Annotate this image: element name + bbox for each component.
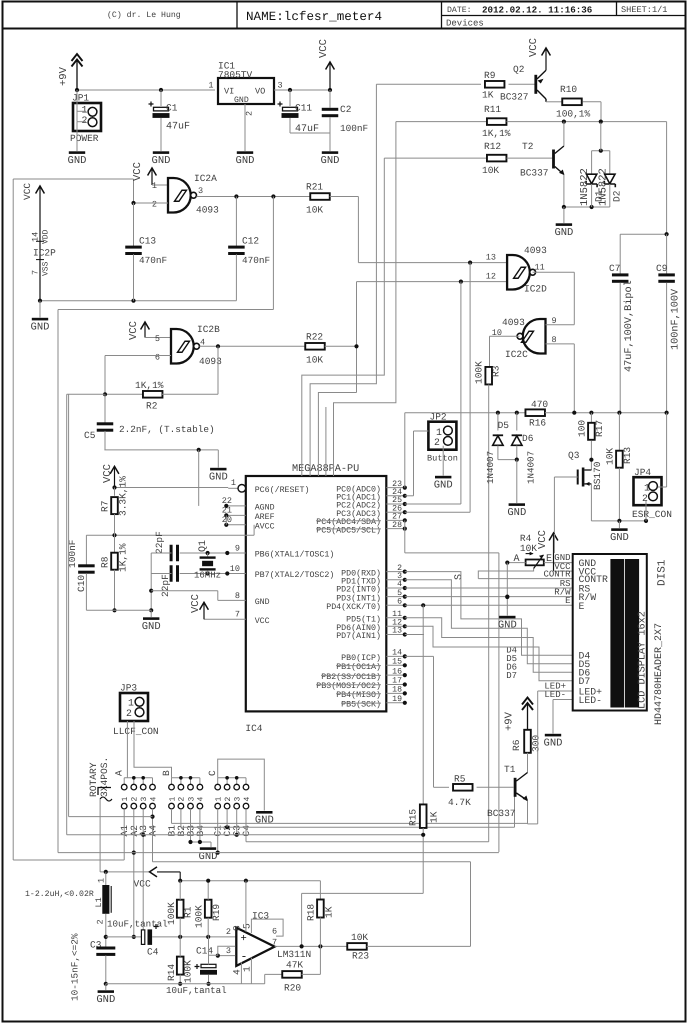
svg-text:16MHz: 16MHz	[194, 571, 221, 581]
wire A2 down to oscillator	[133, 818, 135, 937]
resistor R13 10K	[618, 413, 620, 450]
svg-text:100K: 100K	[166, 902, 177, 925]
svg-text:R14: R14	[166, 964, 177, 981]
wire Q3 gate to VCC leg	[553, 534, 555, 553]
wire pin13 stub	[405, 634, 424, 636]
wire B1 to T1 emitter row	[171, 818, 173, 823]
ground JP2	[435, 476, 451, 479]
svg-text:PC6(/RESET): PC6(/RESET)	[255, 485, 310, 495]
svg-text:1: 1	[242, 966, 253, 972]
VCC arrow LCD	[549, 533, 558, 541]
pin 6 PD4(XCK/T0)	[386, 604, 405, 606]
pin 1 PC6 reset	[228, 487, 238, 489]
svg-text:3: 3	[278, 81, 283, 91]
svg-text:10-15nF,<=2%: 10-15nF,<=2%	[70, 933, 81, 1001]
svg-text:HD44780HEADER_2X7: HD44780HEADER_2X7	[654, 623, 665, 725]
svg-text:2: 2	[245, 111, 255, 116]
ground JP1	[69, 151, 85, 154]
svg-text:R18: R18	[306, 904, 317, 921]
svg-text:DATE:: DATE:	[447, 6, 472, 15]
capacitor C12 470nF	[235, 197, 237, 247]
ground rotary C	[256, 811, 272, 814]
svg-text:5: 5	[155, 334, 160, 344]
resistor R17 100	[590, 413, 592, 422]
svg-text:VCC: VCC	[190, 594, 202, 613]
ground T2	[563, 207, 565, 223]
svg-text:GND: GND	[142, 621, 161, 633]
pin 24 PC1(ADC1)	[386, 495, 405, 497]
title block divider lines	[3, 28, 686, 30]
svg-text:IC4: IC4	[245, 723, 262, 734]
capacitor C9 100nF	[620, 233, 666, 235]
svg-text:100K: 100K	[183, 960, 194, 983]
svg-text:DIS1: DIS1	[657, 559, 669, 586]
svg-text:ESR_CON: ESR_CON	[632, 509, 672, 520]
svg-text:E: E	[579, 601, 585, 612]
svg-text:470: 470	[531, 399, 548, 410]
ground rotary B	[200, 847, 216, 850]
rotary wiper mark	[98, 788, 111, 796]
wire wiper to VCC line	[99, 799, 101, 872]
connector JP2 button	[428, 422, 456, 450]
svg-text:1: 1	[168, 797, 177, 802]
wire A4 to left bus	[69, 816, 153, 818]
wire IC2P VSS to ground rail	[40, 300, 236, 302]
wire xtal caps ground leg	[150, 553, 152, 610]
svg-text:R8: R8	[100, 556, 111, 568]
ground crystal	[143, 617, 159, 620]
svg-text:R20: R20	[284, 983, 301, 994]
svg-text:R22: R22	[306, 332, 323, 343]
svg-text:E: E	[565, 596, 570, 606]
diode D2 1N5822	[592, 150, 610, 152]
+9V supply arrow	[72, 54, 83, 67]
svg-text:12: 12	[486, 272, 496, 282]
svg-text:T2: T2	[522, 141, 534, 152]
transistor Q2 BC327	[534, 75, 537, 94]
ground C3	[98, 990, 114, 993]
wire JP1 pins to ground	[76, 90, 78, 122]
capacitor C7 47uF bipolar	[619, 234, 621, 273]
wire A3 down to C4	[142, 818, 144, 931]
pin 20 AVCC	[226, 524, 246, 526]
svg-text:VCC: VCC	[134, 879, 152, 890]
svg-text:C1: C1	[166, 103, 178, 114]
svg-text:C: C	[207, 770, 218, 776]
wire VCC rail oscillator	[180, 880, 320, 882]
svg-text:17: 17	[392, 677, 402, 686]
wire reset pullup	[115, 487, 229, 489]
rotary group B	[172, 777, 200, 779]
svg-text:4: 4	[149, 797, 158, 802]
resistor R20 47K	[265, 973, 283, 975]
svg-text:R13: R13	[622, 447, 633, 464]
gate IC2B 4093	[141, 322, 150, 330]
wire pot wiper to CONTR	[478, 569, 533, 579]
resistor R1 100K	[177, 900, 184, 918]
svg-text:JP2: JP2	[430, 411, 447, 422]
svg-text:1K: 1K	[429, 811, 440, 823]
wire IC3 pin8 to VCC rail	[245, 881, 247, 932]
svg-text:GND: GND	[236, 155, 255, 167]
svg-text:3: 3	[226, 946, 231, 956]
wire IC2D pin12 run	[357, 281, 508, 283]
svg-text:R1: R1	[183, 906, 194, 918]
svg-text:+9V: +9V	[58, 66, 70, 86]
svg-text:470nF: 470nF	[139, 255, 167, 266]
resistor R3 100K	[485, 367, 492, 385]
svg-text:LED-: LED-	[579, 695, 603, 706]
svg-text:C10: C10	[76, 575, 87, 592]
svg-text:R6: R6	[511, 739, 522, 751]
svg-text:GND: GND	[321, 155, 340, 167]
capacitor C10 100nF	[85, 535, 87, 565]
wire IC2B pin6	[105, 355, 171, 357]
svg-text:GND: GND	[68, 155, 87, 167]
wire R22 to bus	[325, 345, 357, 347]
svg-text:IC2A: IC2A	[194, 173, 217, 184]
wire R15 bottom to comparator output	[302, 892, 424, 894]
svg-text:GND: GND	[434, 480, 453, 492]
svg-text:GND: GND	[31, 322, 50, 334]
svg-text:2: 2	[178, 797, 187, 802]
wire LCD R/W from pin5	[405, 596, 573, 598]
wire JP3 pin1 to rotary A common	[126, 721, 128, 778]
svg-text:10K: 10K	[351, 932, 368, 943]
resistor R14 100K	[177, 957, 184, 975]
wire LCD CONTR pin	[478, 578, 572, 580]
svg-text:NAME:lcfesr_meter4: NAME:lcfesr_meter4	[246, 10, 382, 24]
wire T1 emitter to LED plus leg	[527, 801, 529, 824]
svg-text:2: 2	[642, 493, 648, 504]
wire B3 B4 to ground	[190, 818, 192, 842]
svg-text:PD5(T1): PD5(T1)	[346, 615, 381, 625]
wire feedback loop top	[13, 178, 133, 180]
svg-text:SHEET:1/1: SHEET:1/1	[621, 5, 667, 15]
svg-text:E: E	[546, 554, 552, 565]
rotary group A	[124, 777, 152, 779]
svg-text:47uF: 47uF	[166, 122, 190, 133]
gate IC2A 4093	[148, 168, 157, 176]
svg-text:1N4007: 1N4007	[485, 451, 496, 484]
svg-text:22: 22	[222, 496, 232, 506]
svg-text:VCC: VCC	[318, 39, 330, 58]
resistor R2 1K,1%	[105, 393, 144, 395]
transistor T2 BC337	[552, 150, 555, 169]
svg-text:BC327: BC327	[500, 92, 529, 103]
VCC arrow rotary	[150, 867, 158, 877]
wire pin3 to LCD D5	[405, 580, 573, 664]
svg-text:GND: GND	[610, 532, 629, 544]
ground rail oscillator	[106, 983, 265, 985]
svg-text:22pF: 22pF	[154, 531, 165, 554]
wire pot E to LCD GND pin	[544, 562, 573, 564]
svg-text:PD7(AIN1): PD7(AIN1)	[336, 631, 381, 641]
svg-text:B: B	[161, 770, 172, 776]
svg-text:100: 100	[577, 420, 588, 437]
wire C5 bottom to ground	[104, 449, 218, 451]
wire LCD VCC pin	[554, 570, 573, 572]
pin 8 GND	[218, 599, 246, 601]
svg-text:6: 6	[272, 927, 277, 937]
resistor R22 10K	[305, 343, 325, 350]
svg-text:14: 14	[392, 649, 402, 658]
svg-text:1K: 1K	[324, 906, 335, 918]
svg-text:VCC: VCC	[528, 38, 540, 57]
svg-text:LCD DISPLAY 16x2: LCD DISPLAY 16x2	[638, 611, 649, 709]
wire JP2 pin1 to pin24	[414, 430, 429, 432]
svg-text:4093: 4093	[524, 245, 547, 256]
svg-text:GND: GND	[507, 507, 526, 519]
svg-text:1K,1%: 1K,1%	[135, 380, 164, 391]
connector JP4 ESR_CON	[634, 477, 662, 505]
wire pin25 up to IC2D12	[405, 503, 461, 505]
svg-text:100nF: 100nF	[340, 123, 368, 134]
pin 17 PB3(MOSI/OC2)	[386, 684, 405, 686]
svg-text:10K: 10K	[520, 543, 537, 554]
wire IC2C pin8	[546, 343, 575, 345]
svg-text:Devices: Devices	[446, 18, 484, 28]
IC3 balance box	[251, 919, 283, 936]
svg-text:6: 6	[155, 353, 160, 363]
svg-text:100K: 100K	[194, 905, 205, 928]
svg-text:PC5(ADC5/SCL): PC5(ADC5/SCL)	[316, 525, 381, 535]
svg-text:22pF: 22pF	[160, 574, 171, 597]
svg-text:3X4POS.: 3X4POS.	[99, 757, 110, 797]
voltage regulator IC1 7805TV	[218, 78, 274, 104]
wire C2 down	[226, 818, 228, 827]
svg-text:4: 4	[197, 797, 206, 802]
wire pin26 up to IC2D13	[405, 511, 470, 513]
svg-text:7: 7	[31, 270, 41, 275]
resistor R8 1K	[114, 535, 116, 553]
ground C1	[153, 151, 169, 154]
pin 12 PD6(AIN0)	[386, 625, 405, 627]
svg-text:2.2nF, (T.stable): 2.2nF, (T.stable)	[119, 424, 215, 435]
wire AGND to C5 gnd	[198, 450, 200, 506]
pin 11 PD5(T1)	[386, 617, 405, 619]
connector JP3 LLCF_CON	[120, 693, 148, 721]
pin 26 PC3(ADC3)	[386, 511, 405, 513]
rotary group C	[218, 777, 246, 779]
wire pin11 to LCD D6	[405, 618, 573, 672]
wire L C4 rail	[106, 936, 142, 938]
svg-text:D2: D2	[612, 190, 623, 202]
svg-text:VCC: VCC	[255, 617, 270, 626]
+9V arrow T1	[522, 698, 533, 711]
svg-text:R19: R19	[211, 904, 222, 921]
wire LCD RS from pin4	[405, 587, 573, 589]
svg-text:7: 7	[235, 610, 240, 620]
svg-text:R3: R3	[491, 365, 502, 377]
svg-text:PD3(INT1): PD3(INT1)	[336, 593, 381, 603]
diode D1 1N5822	[591, 151, 593, 175]
svg-text:POWER: POWER	[70, 133, 99, 144]
svg-text:1K,1%: 1K,1%	[118, 543, 129, 572]
svg-text:R16: R16	[529, 418, 546, 429]
svg-text:LM311N: LM311N	[277, 949, 311, 960]
svg-text:R12: R12	[484, 141, 501, 152]
svg-text:R21: R21	[306, 182, 323, 193]
pin 19 PB5(SCK)	[386, 702, 405, 704]
ground IC2P	[32, 318, 48, 321]
wire IC1 pin2 to ground	[244, 104, 246, 151]
svg-text:IC2D: IC2D	[524, 284, 547, 295]
svg-text:13: 13	[486, 253, 496, 263]
svg-text:IC3: IC3	[252, 911, 269, 922]
svg-text:4093: 4093	[199, 356, 222, 367]
svg-text:C5: C5	[84, 430, 96, 441]
svg-text:AGND: AGND	[255, 504, 275, 513]
svg-text:11: 11	[535, 263, 545, 273]
wire R16 net horizontal	[405, 412, 526, 414]
ground D5 D6	[509, 503, 525, 506]
ground rail Q3 R13 JP4	[591, 520, 646, 522]
svg-text:10uF,tantal: 10uF,tantal	[166, 985, 227, 996]
svg-text:R2: R2	[146, 401, 158, 412]
wire IC2D output to IC2C pin9	[533, 271, 575, 273]
svg-text:CONTR: CONTR	[543, 570, 571, 580]
wire A1 to bus	[123, 818, 125, 860]
resistor R7 3.3K	[110, 466, 119, 474]
transistor Q3 BS170	[577, 470, 579, 485]
svg-text:VO: VO	[255, 87, 265, 97]
wire A4 feedback to R23	[152, 809, 154, 862]
svg-text:1N4007: 1N4007	[526, 451, 537, 484]
svg-text:300: 300	[531, 735, 542, 752]
capacitor C6 22pF	[170, 545, 173, 562]
svg-text:10K: 10K	[306, 205, 323, 216]
resistor R16 470	[525, 409, 545, 416]
svg-text:S: S	[454, 574, 465, 580]
svg-text:R11: R11	[484, 104, 501, 115]
pin 4 PD2(INT0)	[386, 587, 405, 589]
svg-text:GND: GND	[554, 227, 573, 239]
svg-text:5: 5	[397, 589, 402, 598]
svg-text:GND: GND	[234, 96, 249, 105]
wire JP3 pin2 to rotary B common	[134, 721, 172, 778]
svg-text:JP4: JP4	[634, 467, 651, 478]
svg-text:C4: C4	[147, 947, 159, 958]
svg-text:A: A	[513, 554, 519, 565]
svg-text:PB4(MISO): PB4(MISO)	[336, 690, 381, 700]
wire pin14 to R5	[405, 655, 434, 657]
svg-text:PD2(INT0): PD2(INT0)	[336, 585, 381, 595]
wire pin12 to LCD D7	[405, 626, 573, 680]
wire Q3 source to gnd rail	[590, 484, 592, 521]
wire pot A to gnd leg	[507, 562, 525, 564]
svg-text:9: 9	[235, 544, 240, 554]
svg-text:(C) dr. Le Hung: (C) dr. Le Hung	[107, 11, 181, 20]
svg-text:R23: R23	[352, 951, 369, 962]
svg-text:PD4(XCK/T0): PD4(XCK/T0)	[326, 602, 381, 612]
potentiometer R4 10K	[526, 560, 544, 566]
svg-text:C13: C13	[139, 236, 156, 247]
ground C5 node	[210, 468, 226, 471]
svg-text:13: 13	[392, 627, 402, 636]
svg-text:2: 2	[126, 708, 132, 719]
svg-text:LLCF_CON: LLCF_CON	[113, 726, 159, 737]
svg-text:1: 1	[82, 105, 88, 116]
svg-text:1: 1	[436, 427, 442, 438]
svg-text:8: 8	[235, 591, 240, 601]
svg-text:JP3: JP3	[120, 683, 137, 694]
svg-text:20: 20	[222, 515, 232, 525]
capacitor C1	[160, 90, 162, 106]
svg-text:4.7K: 4.7K	[448, 797, 471, 808]
svg-text:D7: D7	[506, 671, 517, 681]
comparator output wire	[275, 945, 348, 947]
svg-text:PB1(OC1A): PB1(OC1A)	[336, 662, 381, 672]
wire LED plus	[538, 690, 573, 692]
wire pin27 pin28 SDA SCL run	[404, 520, 406, 553]
svg-text:R9: R9	[484, 70, 496, 81]
ground pot	[499, 616, 515, 619]
pin 22 AGND	[226, 505, 246, 507]
svg-text:GND: GND	[255, 815, 274, 827]
svg-text:1: 1	[644, 482, 650, 493]
svg-text:10: 10	[230, 564, 240, 574]
wire IC3 pin2 plus input	[235, 936, 237, 938]
svg-text:1: 1	[121, 797, 130, 802]
transistor T1 BC337	[514, 778, 517, 797]
resistor R18 1K	[319, 881, 321, 900]
wire JP4 pin2 to gnd	[645, 501, 647, 521]
svg-text:14: 14	[31, 232, 41, 242]
svg-text:Q2: Q2	[513, 64, 525, 75]
wire LED minus	[553, 699, 573, 701]
pin 2 PD0(RXD)	[386, 571, 405, 573]
svg-text:2: 2	[96, 919, 106, 924]
svg-text:4093: 4093	[502, 317, 525, 328]
staircase wires into IC top	[310, 84, 376, 476]
svg-text:VCC: VCC	[537, 530, 549, 549]
svg-text:PB5(SCK): PB5(SCK)	[341, 700, 381, 710]
svg-text:VCC: VCC	[132, 162, 144, 181]
svg-text:1-2.2uH,<0.02R: 1-2.2uH,<0.02R	[25, 890, 94, 899]
wire IC2A pin2	[134, 202, 169, 204]
pin 21 AREF	[226, 514, 246, 516]
wire rotary C common to ground	[218, 759, 265, 810]
svg-text:GND: GND	[255, 598, 270, 607]
connector JP1	[73, 103, 101, 131]
svg-text:1: 1	[208, 81, 213, 91]
svg-text:R17: R17	[594, 420, 605, 437]
svg-text:2: 2	[224, 797, 233, 802]
VCC arrow top	[326, 62, 335, 70]
capacitor C11	[289, 90, 291, 106]
svg-text:C12: C12	[242, 236, 259, 247]
svg-text:C9: C9	[656, 263, 668, 274]
svg-text:28: 28	[392, 521, 402, 530]
pin 18 PB4(MISO)	[386, 692, 405, 694]
resistor R19 100K	[205, 900, 212, 918]
resistor R23 10K	[347, 943, 367, 950]
svg-text:1: 1	[128, 697, 134, 708]
svg-text:GND: GND	[544, 738, 563, 750]
pin 7 VCC	[204, 618, 246, 620]
microcontroller IC4 MEGA88PA-PU box	[246, 476, 386, 711]
svg-text:IC2P: IC2P	[33, 248, 56, 259]
svg-text:47K: 47K	[286, 960, 303, 971]
capacitor C13 470nF	[133, 203, 135, 246]
svg-text:Q3: Q3	[568, 450, 580, 461]
svg-text:VCC: VCC	[128, 321, 140, 340]
svg-text:1N5822: 1N5822	[579, 168, 591, 206]
svg-text:R10: R10	[560, 84, 577, 95]
svg-text:GND: GND	[96, 994, 115, 1006]
svg-text:Button: Button	[427, 454, 458, 464]
